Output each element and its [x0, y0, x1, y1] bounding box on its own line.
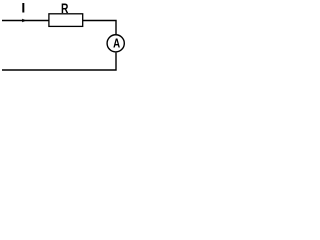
svg-text:A: A	[113, 35, 120, 50]
ammeter U1 circle	[107, 35, 124, 52]
wire top-right segment with corner	[83, 21, 116, 35]
svg-text:R: R	[61, 0, 68, 16]
resistor R	[49, 14, 83, 27]
current arrow	[22, 19, 26, 23]
wire right vertical lower and bottom segment	[2, 53, 116, 70]
wire top-left segment	[2, 20, 49, 22]
svg-text:I: I	[21, 0, 25, 16]
